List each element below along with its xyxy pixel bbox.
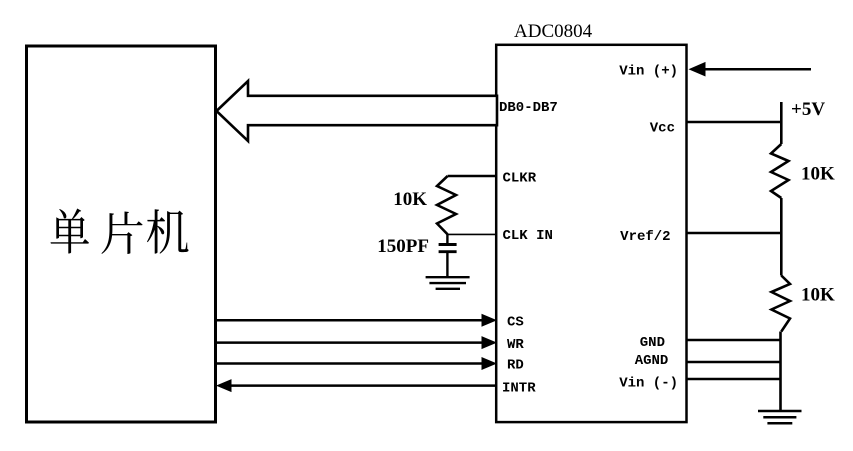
svg-text:DB0-DB7: DB0-DB7 <box>499 100 558 116</box>
svg-text:Vcc: Vcc <box>650 120 675 136</box>
arrowhead CS <box>482 314 498 327</box>
resistor R1 10K zigzag <box>437 176 456 234</box>
arrowhead WR <box>482 336 498 349</box>
wire RD <box>215 362 483 365</box>
bus block arrow DB0-DB7 (ADC to MCU) <box>217 81 498 141</box>
glyph 单 <box>51 209 90 254</box>
svg-text:Vin (+): Vin (+) <box>619 63 678 79</box>
arrowhead RD <box>482 357 498 370</box>
svg-text:150PF: 150PF <box>377 236 429 257</box>
svg-text:WR: WR <box>507 337 524 353</box>
wire CLK IN pin <box>448 233 497 235</box>
wire INTR <box>230 384 497 387</box>
svg-text:CLK IN: CLK IN <box>503 228 553 244</box>
svg-text:RD: RD <box>507 358 524 374</box>
signal arrow wire into Vin(+) <box>702 68 811 71</box>
svg-text:Vref/2: Vref/2 <box>620 229 670 245</box>
svg-text:ADC0804: ADC0804 <box>514 21 593 42</box>
ground symbol (right rail) <box>758 411 802 423</box>
svg-text:CS: CS <box>507 314 524 330</box>
wire rail R3 to ground <box>779 332 782 411</box>
wire Vcc pin <box>687 121 781 124</box>
resistor R2 10K zigzag <box>771 144 789 198</box>
arrowhead Vin(+) <box>689 62 706 77</box>
text 单片机 <box>51 209 189 255</box>
wire rail R2 to Vref/2 <box>780 198 783 233</box>
wire Vin(-) pin <box>687 378 781 381</box>
glyph 片 <box>101 212 142 255</box>
svg-text:10K: 10K <box>801 164 835 185</box>
svg-text:10K: 10K <box>393 189 427 210</box>
wire CS <box>215 319 483 322</box>
wire rail +5V to R2 <box>780 122 783 144</box>
wire CLKR pin <box>448 175 497 178</box>
ground symbol (C1) <box>426 277 470 289</box>
svg-text:+5V: +5V <box>791 99 825 120</box>
svg-text:10K: 10K <box>801 285 835 306</box>
wire rail Vref/2 to R3 <box>780 233 783 276</box>
svg-text:INTR: INTR <box>502 381 536 397</box>
capacitor C1 bottom lead <box>446 253 448 277</box>
wire WR <box>215 341 483 344</box>
wire Vref/2 pin <box>687 232 781 235</box>
glyph 机 <box>147 209 189 253</box>
svg-text:GND: GND <box>640 335 665 351</box>
resistor R3 10K zigzag <box>772 276 791 332</box>
wire GND pin <box>687 339 781 342</box>
svg-text:CLKR: CLKR <box>503 171 537 187</box>
capacitor C1 plates <box>439 243 457 246</box>
power +5V stub <box>780 102 783 122</box>
IC U1 ADC0804 box <box>496 45 686 422</box>
arrowhead INTR <box>216 379 232 392</box>
svg-text:AGND: AGND <box>635 353 669 369</box>
capacitor C1 top lead <box>446 234 448 243</box>
wire AGND pin <box>687 361 781 364</box>
svg-text:Vin (-): Vin (-) <box>619 376 678 392</box>
block U2 microcontroller box <box>27 46 216 422</box>
